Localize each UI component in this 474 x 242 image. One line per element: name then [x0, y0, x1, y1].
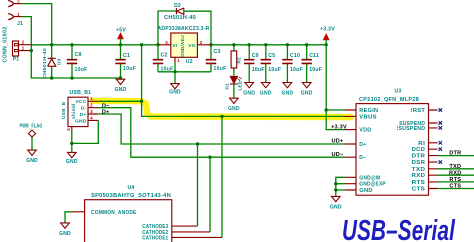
junction C8 top — [70, 43, 73, 46]
svg-text:5: 5 — [66, 128, 71, 131]
junction +5V / C1 — [119, 43, 122, 46]
ground symbol below C10 — [283, 83, 292, 88]
svg-text:GND: GND — [359, 188, 373, 194]
svg-text:D−: D− — [102, 103, 110, 109]
svg-text:GND: GND — [330, 204, 342, 210]
capacitor C11 — [305, 43, 308, 46]
svg-text:DTR: DTR — [412, 154, 426, 160]
svg-text:GND: GND — [75, 118, 87, 124]
junction UD+ to U4 CATHODE3 drop — [196, 142, 199, 145]
ground symbol below U3 — [332, 196, 341, 201]
svg-text:D-: D- — [81, 106, 87, 112]
svg-text:COMMON_ANODE: COMMON_ANODE — [91, 210, 137, 216]
svg-text:DSR: DSR — [412, 160, 426, 166]
wire +3.3V rail — [211, 44, 326, 46]
diode D2 CH501H-40 — [176, 8, 183, 14]
svg-text:DTR: DTR — [449, 151, 461, 157]
junction VBUS to U4 CATHODE1 drop — [220, 115, 223, 118]
svg-text:10uF: 10uF — [290, 67, 303, 73]
junction USB ground — [70, 142, 73, 145]
svg-text:DCD: DCD — [412, 147, 426, 153]
svg-text:CH501H-40: CH501H-40 — [164, 15, 196, 21]
svg-text:REGIN: REGIN — [359, 108, 378, 114]
svg-text:D−: D− — [359, 155, 366, 161]
svg-text:10uF: 10uF — [161, 66, 174, 72]
capacitor C5 — [264, 43, 267, 46]
junction U2 ground — [173, 70, 176, 73]
resistor R2 — [232, 43, 235, 46]
junction D3 top — [50, 43, 53, 46]
wire REGIN to +3.3V — [326, 45, 344, 110]
svg-text:C3: C3 — [214, 49, 221, 55]
junction VBUS corner to +5V rail branch — [140, 100, 143, 103]
svg-text:RXD: RXD — [449, 170, 461, 176]
svg-text:1: 1 — [17, 12, 20, 17]
junction C1 / ground rail end — [119, 76, 122, 79]
svg-text:GND: GND — [115, 87, 127, 93]
svg-text:1: 1 — [22, 46, 25, 51]
svg-text:GND: GND — [169, 89, 181, 95]
svg-text:C8: C8 — [75, 52, 82, 58]
svg-text:GND: GND — [301, 90, 313, 96]
junction D3 bottom on ground rail — [50, 76, 53, 79]
svg-text:USB–Serial: USB–Serial — [342, 215, 456, 242]
voltage regulator U2 ADP3338 — [171, 33, 198, 57]
svg-text:D1: D1 — [224, 83, 229, 90]
svg-text:RTS: RTS — [449, 177, 461, 183]
svg-text:10uF: 10uF — [268, 67, 281, 73]
wire COMMON_ANODE to ground — [72, 211, 85, 213]
svg-text:P1: P1 — [13, 57, 20, 63]
capacitor C9 — [248, 43, 251, 46]
svg-text:3: 3 — [165, 40, 168, 45]
svg-text:VBUS: VBUS — [359, 114, 377, 120]
svg-text:+3.3V: +3.3V — [320, 26, 335, 32]
ground symbol below PWR_FLAG — [28, 150, 37, 155]
svg-text:GND: GND — [26, 158, 38, 164]
svg-text:10uF: 10uF — [214, 66, 227, 72]
wire from J2 pin to +5V rail — [22, 4, 52, 45]
connector hook J2 pin 2 — [8, 1, 13, 7]
svg-text:2: 2 — [200, 40, 203, 45]
wire C2 to C3 ground link — [158, 71, 211, 73]
svg-text:GND: GND — [282, 90, 294, 96]
ground symbol below U4 anode — [61, 223, 70, 228]
svg-text:D2: D2 — [174, 3, 181, 9]
svg-text:1: 1 — [177, 58, 180, 63]
svg-text:RI: RI — [418, 141, 425, 147]
wire U3 ground pins to GND — [336, 177, 345, 196]
ground symbol below C9 — [245, 83, 254, 88]
svg-text:VO: VO — [188, 43, 196, 49]
wire from J1 pin down to P1 pin 1 — [22, 17, 32, 51]
svg-text:TXD: TXD — [449, 164, 461, 170]
wire CATHODE3 to UD+ — [172, 225, 198, 227]
svg-text:C10: C10 — [290, 53, 300, 59]
junction VO node — [209, 43, 212, 46]
serial output wires DTR TXD RXD RTS CTS — [438, 155, 474, 157]
svg-text:LED: LED — [237, 80, 242, 90]
svg-text:2: 2 — [22, 40, 25, 45]
svg-text:D3: D3 — [57, 58, 63, 65]
svg-text:U3: U3 — [394, 88, 401, 94]
svg-text:UD+: UD+ — [331, 139, 344, 145]
svg-text:10uF: 10uF — [309, 67, 322, 73]
junction P1 pin1 / J1 / ground branch — [30, 49, 33, 52]
wire D- net — [98, 108, 344, 158]
ground symbol below USB — [68, 152, 77, 157]
junction +3.3V rail end — [325, 43, 328, 46]
svg-text:CATHODE1: CATHODE1 — [142, 236, 168, 242]
svg-text:D+: D+ — [80, 112, 87, 118]
LED D1 — [230, 76, 238, 83]
wire USB GND pin to ground — [72, 120, 99, 143]
capacitor C1 — [120, 45, 122, 79]
svg-text:1: 1 — [90, 96, 93, 101]
svg-text:CONN_01X02: CONN_01X02 — [3, 27, 9, 63]
svg-text:GND: GND — [243, 90, 255, 96]
wire +5V rail drop to USB VCC — [141, 45, 143, 102]
ground symbol below C1 — [116, 79, 125, 84]
svg-text:CP2102_QFN_MLP28: CP2102_QFN_MLP28 — [359, 97, 419, 103]
svg-text:GND: GND — [260, 90, 272, 96]
junction REGIN node — [325, 108, 328, 111]
svg-text:CTS: CTS — [412, 187, 426, 193]
svg-text:CTS: CTS — [449, 184, 461, 190]
svg-text:C5: C5 — [268, 53, 275, 59]
junction UD- to U4 CATHODE2 drop — [208, 156, 211, 159]
svg-text:TXD: TXD — [412, 167, 426, 173]
capacitor C2 — [157, 45, 159, 72]
ground symbol below C5 — [262, 83, 271, 88]
svg-text:J1: J1 — [17, 21, 23, 27]
svg-text:D+: D+ — [359, 142, 366, 148]
svg-text:+3.3V: +3.3V — [331, 124, 347, 130]
wire +5V rail — [32, 44, 159, 46]
svg-text:USB_B: USB_B — [61, 101, 67, 119]
svg-text:C11: C11 — [309, 53, 319, 59]
wire D+ net — [98, 114, 344, 144]
svg-text:D+: D+ — [102, 110, 110, 116]
svg-text:10uF: 10uF — [252, 67, 265, 73]
wire shield to ground — [71, 131, 73, 152]
capacitor C10 — [286, 43, 289, 46]
svg-text:GND@EXP: GND@EXP — [359, 182, 386, 188]
ground symbol below U2 — [171, 84, 180, 89]
svg-text:ADP3338AKCZ3.3-R: ADP3338AKCZ3.3-R — [158, 26, 210, 32]
junction C8 bottom — [70, 76, 73, 79]
svg-text:USB_B1: USB_B1 — [70, 90, 92, 96]
svg-text:GND: GND — [228, 106, 240, 112]
svg-text:U2: U2 — [186, 59, 193, 65]
svg-text:shield: shield — [71, 104, 77, 119]
connector P1 CONN_01X02 — [13, 41, 19, 56]
USB shield pin 5 — [71, 127, 73, 131]
junction VI node — [156, 43, 159, 46]
svg-text:10uF: 10uF — [75, 67, 88, 73]
svg-text:VI: VI — [172, 43, 177, 49]
svg-text:R2: R2 — [237, 57, 242, 64]
junction GND@EXP — [334, 182, 337, 185]
svg-text:VDD: VDD — [359, 128, 371, 134]
svg-text:4: 4 — [90, 115, 93, 120]
svg-text:2: 2 — [90, 103, 93, 108]
wire CATHODE1 to VBUS — [172, 236, 222, 238]
svg-text:GND: GND — [66, 159, 78, 165]
svg-text:U4: U4 — [127, 185, 134, 191]
diode D3 CH501H-40 — [51, 45, 53, 59]
wire D2 to VO node — [184, 11, 211, 45]
svg-text:SP0503BAHTG_SOT143-4N: SP0503BAHTG_SOT143-4N — [91, 193, 171, 199]
yellow highlighter annotation on USB 5V net — [93, 101, 351, 117]
svg-text:!RST: !RST — [411, 108, 426, 114]
no-connect marks on U3 right pins — [439, 108, 442, 111]
svg-text:3: 3 — [90, 109, 93, 114]
wire VDD +3.3V branch — [326, 110, 344, 130]
svg-text:C2: C2 — [161, 53, 168, 59]
wire +5V rail to regulator VI and D2 — [158, 11, 176, 45]
svg-text:RXD: RXD — [412, 173, 426, 179]
wire CATHODE2 to UD- — [172, 231, 210, 233]
svg-text:10uF: 10uF — [123, 66, 136, 72]
capacitor C3 — [210, 45, 212, 72]
svg-text:GND: GND — [59, 231, 71, 237]
svg-text:2: 2 — [17, 0, 20, 4]
svg-text:VCC: VCC — [76, 99, 87, 105]
svg-text:+5V: +5V — [116, 27, 126, 33]
svg-text:GND@M: GND@M — [359, 175, 380, 181]
svg-text:RTS: RTS — [412, 180, 426, 186]
svg-text:C9: C9 — [252, 53, 259, 59]
svg-text:CH501H-40: CH501H-40 — [42, 48, 48, 79]
svg-text:C1: C1 — [123, 53, 130, 59]
wire P1 pin1 down to ground rail — [31, 51, 120, 78]
junction GND pin — [334, 188, 337, 191]
wire VBUS net from USB VCC to U3 (highlighted) — [98, 101, 344, 116]
U2 ground pin — [174, 57, 176, 62]
capacitor C8 — [71, 45, 73, 78]
svg-text:!SUSPEND: !SUSPEND — [397, 126, 426, 132]
ground symbol below C11 — [302, 83, 311, 88]
svg-text:GND/ADJ: GND/ADJ — [180, 35, 185, 57]
connector hook J1 pin 1 — [8, 14, 13, 20]
svg-text:PWR_FLAG: PWR_FLAG — [20, 123, 43, 129]
svg-text:UD−: UD− — [331, 152, 344, 158]
ground symbol below D1 — [230, 98, 239, 103]
